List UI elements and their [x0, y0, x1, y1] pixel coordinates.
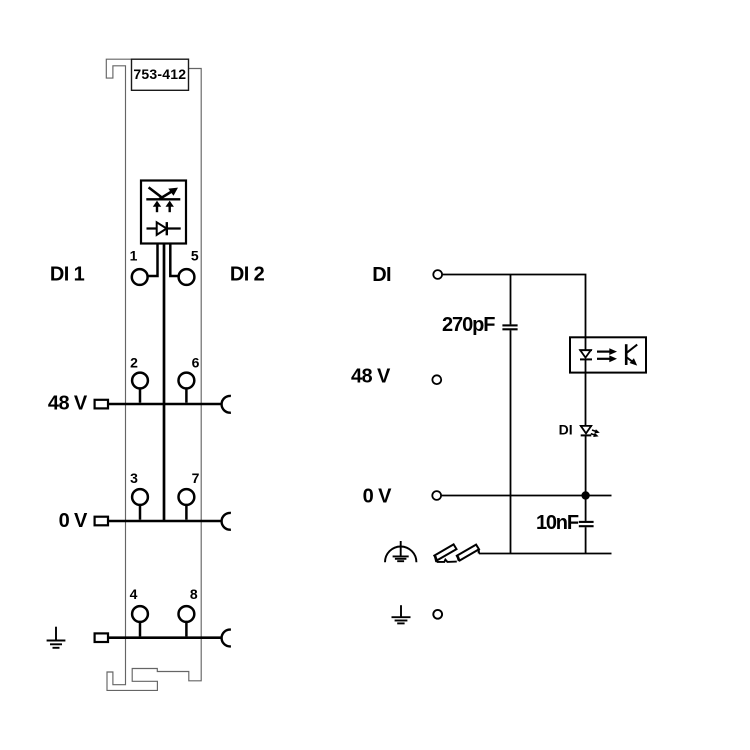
wire earth right	[479, 553, 612, 555]
svg-text:0 V: 0 V	[59, 510, 88, 532]
label box 753-412	[132, 59, 189, 90]
label 48 V right	[351, 365, 391, 387]
diode D1	[147, 222, 181, 235]
svg-text:48 V: 48 V	[351, 365, 391, 387]
svg-text:753-412: 753-412	[133, 66, 186, 82]
terminal 1	[130, 248, 148, 285]
label DI right	[372, 264, 391, 286]
svg-text:DI 2: DI 2	[230, 264, 265, 286]
wire main vertical	[163, 244, 166, 522]
terminal 5	[179, 248, 199, 285]
connector square earth	[95, 633, 108, 642]
connector square 0V	[95, 517, 108, 526]
terminal 3	[130, 470, 148, 520]
capacitor C1 270pF	[502, 275, 517, 554]
DIN rail icon	[434, 544, 479, 562]
svg-text:5: 5	[191, 248, 199, 264]
label DI 1	[50, 264, 85, 286]
LED emission arrows	[591, 429, 600, 437]
label 48 V left	[48, 393, 88, 415]
hook contact 48V	[222, 396, 231, 413]
module outline	[106, 59, 201, 690]
svg-text:10nF: 10nF	[536, 512, 579, 534]
svg-text:8: 8	[190, 586, 198, 602]
svg-text:DI: DI	[372, 264, 391, 286]
optocoupler U2 box	[570, 337, 646, 372]
node 0V terminal	[432, 491, 441, 500]
wire 0V rail	[108, 520, 221, 523]
node DI terminal	[433, 270, 442, 279]
svg-text:1: 1	[130, 248, 138, 264]
junction dot	[581, 491, 589, 499]
wire earth rail	[108, 636, 221, 639]
svg-text:DI 1: DI 1	[50, 264, 85, 286]
chassis ground symbol	[385, 541, 416, 562]
terminal 4	[130, 586, 148, 636]
connector square 48V	[95, 400, 108, 409]
node 48V terminal	[432, 375, 441, 384]
svg-text:3: 3	[130, 470, 138, 486]
optocoupler light arrows	[597, 348, 617, 362]
svg-text:48 V: 48 V	[48, 393, 88, 415]
wire lead to terminal 1	[148, 244, 158, 277]
label 270pF	[442, 314, 495, 336]
label DI small	[559, 421, 573, 437]
svg-text:0 V: 0 V	[363, 485, 392, 507]
terminal 8	[179, 586, 198, 636]
capacitor C2 10nF	[579, 496, 594, 554]
wire below optocoupler	[585, 373, 587, 426]
hook contact earth	[222, 630, 231, 647]
wire LED to 0V	[585, 435, 587, 495]
ground symbol left	[47, 627, 66, 648]
hook contact 0V	[222, 513, 231, 530]
svg-text:270pF: 270pF	[442, 314, 495, 336]
svg-text:4: 4	[130, 586, 138, 602]
label 10nF	[536, 512, 579, 534]
svg-text:2: 2	[130, 355, 138, 371]
label 0 V right	[363, 485, 392, 507]
terminal 6	[179, 355, 200, 403]
wire lead to terminal 5	[170, 244, 178, 277]
wire DI top	[442, 275, 585, 338]
terminal 2	[130, 355, 148, 403]
optocoupler phototransistor	[626, 344, 637, 365]
LED DI indicator	[580, 426, 592, 436]
node earth terminal	[433, 610, 442, 619]
svg-text:7: 7	[192, 470, 200, 486]
filter box U1	[141, 181, 186, 244]
label DI 2	[230, 264, 265, 286]
wire 0V right	[441, 495, 611, 497]
ground symbol right	[392, 605, 411, 623]
wire 48V rail	[108, 403, 221, 406]
svg-text:6: 6	[192, 355, 200, 371]
optocoupler LED	[579, 337, 592, 372]
svg-text:DI: DI	[559, 421, 573, 437]
terminal 7	[179, 470, 200, 520]
label 0 V left	[59, 510, 88, 532]
surge suppressor symbol	[146, 187, 180, 212]
